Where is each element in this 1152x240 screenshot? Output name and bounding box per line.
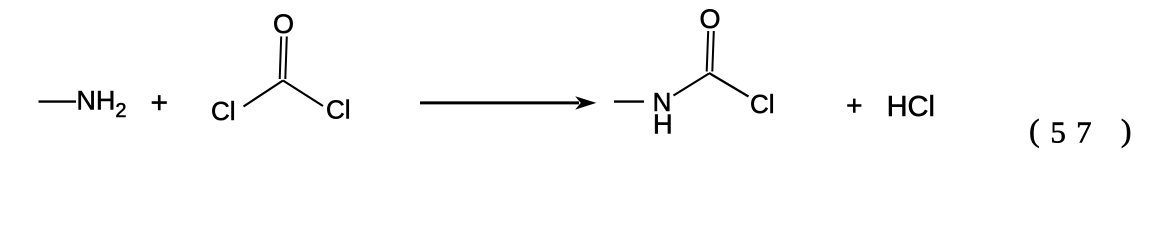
svg-text:Cl: Cl [750, 89, 775, 119]
bond C-Cl of product [709, 73, 749, 97]
bond C-Cl left of phosgene [244, 81, 284, 107]
reaction arrow shaft [420, 101, 579, 104]
svg-text:7: 7 [1076, 115, 1092, 150]
reaction arrow head [575, 96, 596, 109]
svg-text:(: ( [1029, 112, 1040, 148]
svg-text:+: + [846, 90, 862, 121]
bond C-Cl right of phosgene [283, 81, 323, 107]
svg-text:H: H [653, 109, 673, 140]
svg-text:O: O [699, 4, 720, 34]
svg-text:Cl: Cl [211, 96, 236, 126]
svg-text:5: 5 [1050, 115, 1066, 150]
svg-text:NH2: NH2 [76, 86, 126, 122]
equation number ( 5 7 ) [1029, 112, 1132, 149]
svg-text:Cl: Cl [326, 95, 351, 125]
svg-text:): ) [1121, 112, 1132, 148]
bond methyl-N of product [614, 100, 644, 102]
svg-text:HCl: HCl [887, 91, 935, 123]
svg-text:+: + [151, 87, 169, 120]
bond N-C of product [674, 74, 710, 96]
bond methyl-N of amine [39, 100, 77, 102]
double bond C=O of phosgene [280, 37, 282, 80]
svg-text:O: O [273, 9, 294, 39]
double bond C=O of product [707, 31, 709, 72]
